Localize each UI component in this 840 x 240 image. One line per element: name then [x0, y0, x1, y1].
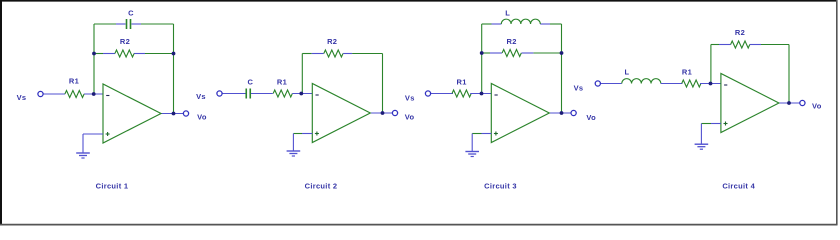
svg-text:R1: R1 — [277, 77, 287, 86]
svg-text:Circuit 2: Circuit 2 — [305, 182, 338, 191]
svg-text:Circuit 4: Circuit 4 — [722, 182, 755, 191]
svg-text:L: L — [625, 68, 630, 77]
svg-text:Circuit 1: Circuit 1 — [96, 182, 129, 191]
svg-text:C: C — [128, 9, 134, 18]
svg-text:Vs: Vs — [196, 92, 206, 101]
svg-text:Vo: Vo — [197, 113, 207, 122]
svg-text:Vs: Vs — [574, 84, 584, 93]
svg-text:R1: R1 — [682, 68, 692, 77]
svg-text:R1: R1 — [457, 77, 467, 86]
svg-text:Vs: Vs — [17, 93, 27, 102]
svg-text:C: C — [247, 77, 253, 86]
svg-text:Vo: Vo — [812, 101, 822, 110]
svg-text:R2: R2 — [735, 28, 745, 37]
svg-text:Vs: Vs — [405, 93, 415, 102]
svg-text:R2: R2 — [120, 37, 130, 46]
svg-text:L: L — [505, 9, 510, 18]
svg-text:R2: R2 — [327, 37, 337, 46]
svg-text:Circuit 3: Circuit 3 — [484, 182, 517, 191]
svg-text:R2: R2 — [507, 37, 517, 46]
svg-text:Vo: Vo — [586, 113, 596, 122]
svg-text:Vo: Vo — [405, 113, 415, 122]
svg-text:R1: R1 — [69, 77, 79, 86]
